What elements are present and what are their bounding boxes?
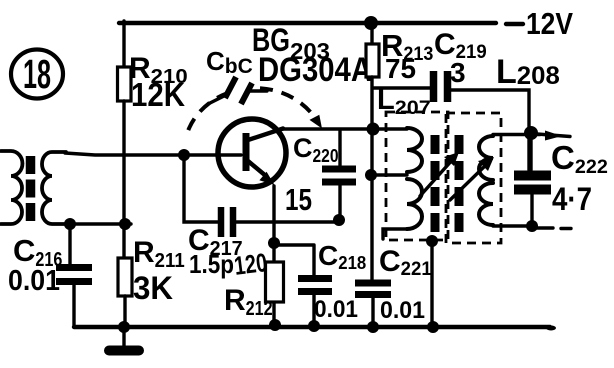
capacitor CbC neutralizing [225, 77, 252, 104]
wire C217 right to emitter line [236, 220, 340, 223]
inductor L208 winding [479, 136, 493, 180]
capacitor C216 [56, 268, 92, 282]
wire C217 branch down from base node [184, 157, 218, 222]
wire emitter down to ground [272, 186, 275, 326]
wire C216 bottom to ground rail [72, 285, 75, 326]
wire L207 bottom return [383, 229, 407, 239]
core L207 dashes [431, 135, 440, 232]
wire L207 tap [372, 173, 407, 176]
wire L208 top to output node [493, 133, 540, 136]
resistor R211 [118, 258, 132, 296]
wire C216 top [68, 225, 71, 264]
node output bottom junction [526, 220, 538, 232]
node base-divider / transformer-bottom junction [119, 218, 131, 230]
node collector / main vertical junction [367, 123, 380, 136]
wire transformer bottom to divider [67, 222, 131, 225]
transistor collector stroke [248, 129, 283, 141]
svg-text:0.01: 0.01 [314, 296, 358, 323]
wire main vertical down to C221 [370, 77, 373, 280]
wire collector line to L207 winding top [282, 127, 407, 130]
node C220 bottom junction [333, 214, 345, 226]
transformer T input: left winding [1, 151, 22, 224]
ground symbol [122, 328, 125, 347]
node C216 junction [64, 218, 76, 230]
wire base line from transformer to transistor [65, 153, 241, 155]
ground rail [74, 325, 550, 329]
wire C219 right over to output column [451, 90, 529, 170]
wire 12V top supply rail [119, 23, 523, 24]
svg-text:120: 120 [232, 247, 268, 281]
node emitter ground junction [269, 319, 281, 331]
svg-text:75: 75 [385, 53, 416, 84]
node C218 ground junction [308, 320, 320, 332]
svg-text:0.01: 0.01 [8, 265, 60, 297]
node output top junction [524, 126, 538, 140]
resistor R213 [366, 44, 379, 77]
node shield top junction [426, 235, 438, 247]
wire from rail corner down to R210 [122, 21, 125, 67]
shield box L207 dashed [386, 112, 448, 240]
circle 18 figure number [11, 50, 63, 99]
svg-text:1.5p: 1.5p [189, 249, 234, 279]
svg-text:18: 18 [23, 51, 51, 97]
node C221 ground junction [367, 321, 379, 333]
resistor R210 [118, 67, 132, 101]
svg-text:12K: 12K [131, 76, 185, 113]
transistor emitter stroke with arrow [248, 161, 266, 176]
arrow L208 tuning [450, 163, 488, 200]
svg-text:DG304A: DG304A [258, 51, 372, 89]
capacitor C219 [434, 71, 448, 102]
wire emitter node to C218 [274, 243, 314, 246]
capacitor C218 [312, 246, 315, 275]
svg-text:15: 15 [285, 182, 312, 217]
transformer T input: right winding [42, 152, 67, 224]
node ground junction R211 [118, 321, 130, 333]
node shield ground junction [427, 321, 439, 333]
node supply junction R213 [364, 16, 378, 30]
capacitor C220 [338, 131, 341, 166]
wire L208 bottom to output bottom [493, 224, 533, 227]
arrow output [537, 134, 570, 137]
capacitor C221 [355, 283, 391, 295]
transistor base bar [243, 133, 250, 171]
wire C219 left [373, 86, 430, 89]
arrow L207 tuning [420, 158, 454, 196]
core L208 dashes [455, 135, 464, 232]
wire output bottom stub [532, 226, 571, 230]
transistor BG203 circle [218, 119, 286, 187]
svg-text:4·7: 4·7 [552, 181, 592, 217]
wire R211 to ground rail [123, 296, 126, 329]
transformer core dashes [26, 156, 36, 222]
svg-text:3K: 3K [133, 270, 173, 306]
inductor L207 winding [407, 128, 422, 172]
node emitter / bypass junction [268, 237, 280, 249]
svg-text:3: 3 [450, 57, 466, 88]
wire main vertical R213 top [370, 26, 373, 44]
capacitor C222 [514, 176, 551, 190]
node base / C217 branch junction [178, 149, 190, 161]
wire shield ground drop [430, 241, 433, 328]
dashed arc neutralization path [188, 93, 228, 130]
svg-text:12V: 12V [526, 6, 573, 41]
capacitor C217 [221, 207, 233, 237]
svg-text:0.01: 0.01 [380, 297, 425, 324]
node L207 tap junction [365, 169, 377, 181]
shield box L208 dashed [446, 113, 501, 243]
resistor R212 [266, 262, 284, 302]
wire R210 bottom down to R211 (crosses base wire, no dot) [122, 101, 125, 258]
